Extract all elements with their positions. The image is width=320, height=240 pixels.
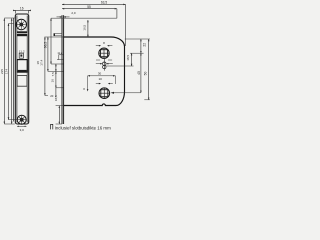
- lock case outline: [64, 37, 125, 106]
- bottom note: [51, 124, 53, 129]
- svg-text:17,4: 17,4: [39, 60, 43, 66]
- svg-text:16: 16: [50, 79, 54, 83]
- dim 3,0 below plate: [17, 125, 27, 127]
- middle dim vertical A: [44, 37, 46, 96]
- svg-text:10: 10: [99, 77, 103, 81]
- cylinder dim ticks: [96, 83, 100, 85]
- svg-text:55: 55: [87, 5, 91, 9]
- top line: [51, 17, 117, 19]
- svg-text:30: 30: [98, 71, 102, 75]
- svg-text:18,5: 18,5: [126, 55, 130, 61]
- latch bolt (dark hatched): [17, 31, 27, 36]
- small square cutout: [19, 53, 23, 58]
- svg-text:2,0: 2,0: [71, 11, 76, 15]
- svg-text:40: 40: [137, 71, 141, 75]
- adjuster double ring: [103, 59, 105, 71]
- tick from adjuster ring to right: [106, 65, 133, 67]
- tick at follower centre right: [130, 52, 144, 54]
- svg-text:174: 174: [4, 69, 8, 74]
- middle dim vertical D slots: [55, 64, 57, 98]
- extension tick top right: [125, 38, 150, 40]
- latch protruding (side view): [54, 34, 62, 36]
- svg-text:18,5: 18,5: [54, 95, 58, 101]
- left long dim lines: [3, 18, 5, 124]
- follower dim ticks: [96, 45, 101, 47]
- svg-text:3,0: 3,0: [20, 128, 25, 132]
- dim 22 / 40 chained vertical right: [140, 39, 142, 93]
- right view: faceplate side (double line): [61, 15, 63, 124]
- svg-text:16,5: 16,5: [83, 24, 87, 30]
- svg-text:16: 16: [20, 6, 24, 10]
- svg-text:66,5: 66,5: [43, 42, 47, 49]
- svg-text:11,2: 11,2: [57, 51, 62, 55]
- lower rectangular cutout: [17, 76, 27, 87]
- dim 16,5 vertical above case: [87, 20, 89, 37]
- cylinder hole: [99, 88, 110, 99]
- bottom screw hole: [17, 115, 26, 124]
- dim 18,5 vertical right: [131, 53, 133, 66]
- left view: faceplate outline: [15, 14, 28, 124]
- deadbolt opening w/ bolt: [17, 60, 27, 73]
- follower (handle hub): [99, 48, 109, 58]
- svg-text:Inclusief slotbuisdikte 16 mm: Inclusief slotbuisdikte 16 mm: [55, 125, 111, 130]
- svg-text:63,5: 63,5: [101, 1, 107, 5]
- svg-text:22: 22: [142, 43, 146, 47]
- dim 50 outer vertical right: [148, 39, 150, 100]
- tick bottom right: [144, 99, 150, 101]
- left dim ticks: [4, 17, 15, 19]
- tick at cylinder centre with arrow: [111, 92, 141, 94]
- svg-text:7,5: 7,5: [51, 72, 55, 77]
- svg-text:50: 50: [144, 72, 148, 76]
- middle dim vertical C from plate top: [50, 18, 52, 64]
- bottom right dim 18,5: [58, 106, 60, 124]
- svg-text:11,2: 11,2: [19, 49, 25, 53]
- top screw hole: [16, 19, 26, 29]
- faceplate inner edge lines: [16, 16, 18, 123]
- middle dim vertical B 66,5: [47, 37, 49, 71]
